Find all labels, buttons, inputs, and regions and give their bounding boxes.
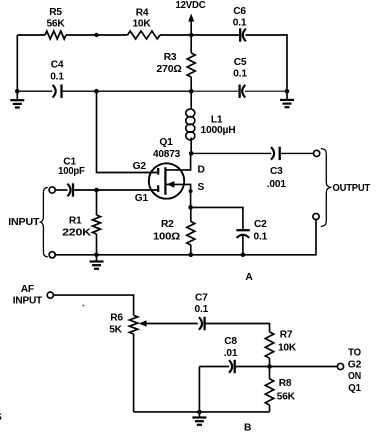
capacitor C5 (233, 57, 247, 98)
svg-text:220K: 220K (62, 227, 92, 238)
wire top rail left segment (17, 34, 45, 36)
wire top rail R5 to R4 (66, 34, 128, 36)
12VDC supply arrow (176, 0, 207, 35)
svg-text:G2: G2 (133, 161, 147, 172)
junction dot right ground node (285, 89, 290, 94)
wire ground vertical to C8 (199, 366, 229, 368)
svg-text:R2: R2 (161, 219, 174, 230)
junction dot bias node at C4 rail (94, 89, 99, 94)
svg-text:OUTPUT: OUTPUT (333, 183, 371, 194)
svg-text:40873: 40873 (153, 149, 181, 160)
junction dot R2 bottom rail (189, 253, 194, 258)
resistor R7 (265, 330, 297, 367)
svg-text:R7: R7 (280, 330, 293, 341)
svg-text:AF: AF (21, 284, 34, 295)
wire C4 to bias column (62, 90, 97, 92)
svg-text:5K: 5K (109, 325, 122, 336)
AF input terminal (47, 292, 53, 298)
wire bias column to R3 column at y=91 (97, 90, 192, 92)
svg-text:INPUT: INPUT (8, 217, 40, 228)
svg-text:0.1: 0.1 (254, 232, 268, 243)
resistor R3 (156, 35, 195, 91)
capacitor C4 (50, 60, 64, 98)
capacitor C2 (236, 219, 267, 255)
svg-text:R6: R6 (110, 313, 123, 324)
junction dot 12VDC node (189, 33, 193, 37)
svg-text:R8: R8 (279, 378, 292, 389)
svg-text:.001: .001 (267, 179, 287, 190)
svg-text:270Ω: 270Ω (156, 64, 181, 75)
resistor R8 (265, 367, 295, 412)
svg-text:56K: 56K (277, 391, 296, 402)
capacitor C8 (224, 336, 238, 373)
junction dot R3 bottom node (189, 89, 194, 94)
svg-text:C2: C2 (254, 219, 267, 230)
wire C8 to R7/R8 node (235, 366, 269, 368)
wire C5 to right ground node (245, 90, 287, 92)
svg-text:S: S (0, 412, 2, 423)
resistor R5 (45, 7, 66, 39)
svg-text:G1: G1 (135, 193, 149, 204)
junction dot R5-R4 node (94, 33, 98, 37)
wire node to output terminal B (270, 366, 338, 368)
AF INPUT label (13, 284, 43, 306)
svg-text:0.1: 0.1 (233, 68, 247, 79)
svg-text:Q1: Q1 (348, 383, 361, 394)
svg-text:C3: C3 (270, 166, 283, 177)
resistor R2 (153, 207, 195, 254)
wire left vertical from top rail to C4 rail (16, 35, 18, 91)
svg-text:0.1: 0.1 (233, 17, 247, 28)
TO G2 ON Q1 label (348, 348, 362, 394)
svg-text:C7: C7 (195, 293, 208, 304)
svg-text:10K: 10K (278, 343, 297, 354)
svg-text:100pF: 100pF (58, 166, 85, 177)
svg-text:R3: R3 (164, 52, 177, 63)
svg-text:C5: C5 (234, 57, 247, 68)
wire bottom rail B (134, 411, 270, 413)
capacitor C3 (267, 147, 287, 190)
input brace (41, 187, 48, 257)
svg-text:0.1: 0.1 (50, 72, 64, 83)
resistor R4 (128, 8, 161, 40)
ground symbol left (10, 91, 24, 107)
resistor R1 (62, 190, 100, 255)
svg-text:C6: C6 (233, 6, 246, 17)
svg-text:INPUT: INPUT (13, 295, 43, 306)
svg-text:R5: R5 (49, 7, 62, 18)
wire C8 left plate to ground (198, 367, 200, 412)
svg-text:TO: TO (348, 348, 361, 359)
junction dot R1 top (94, 188, 99, 193)
transistor Q1 40673 dual-gate MOSFET (149, 137, 191, 207)
junction dot R7/R8 node (267, 364, 272, 369)
output top terminal (314, 150, 320, 156)
ground symbol B (192, 412, 206, 425)
svg-text:S: S (198, 182, 205, 193)
input bottom terminal (49, 252, 55, 258)
stray mark (83, 305, 85, 307)
wire C4 rail: ground to C4 (17, 90, 52, 92)
wire C1 to G1 (74, 189, 159, 191)
svg-text:D: D (198, 164, 205, 175)
svg-text:10K: 10K (132, 18, 151, 29)
svg-text:C8: C8 (224, 336, 237, 347)
svg-text:100Ω: 100Ω (153, 232, 180, 243)
svg-text:A: A (245, 272, 253, 283)
wire C3 to output top terminal (280, 152, 313, 154)
junction dot rail B ground (197, 410, 202, 415)
terminal to G2 (337, 363, 343, 369)
svg-text:R4: R4 (136, 8, 149, 19)
wire top rail C6 to right corner, down to right ground node (246, 35, 288, 91)
svg-text:1000µH: 1000µH (201, 125, 236, 136)
wire G2 feed from bias column (97, 91, 158, 172)
wire top rail R4 to 12VDC node (160, 34, 239, 36)
junction dot R1 ground node (94, 253, 99, 258)
junction dot source / R2-C2 node (188, 205, 193, 210)
svg-text:Q1: Q1 (159, 137, 173, 148)
junction dot C2 bottom rail (241, 253, 246, 258)
capacitor C7 (195, 293, 209, 331)
svg-text:G2: G2 (348, 359, 362, 370)
wire R3 node to C5 (191, 90, 238, 92)
output brace (321, 149, 332, 227)
wire output bottom terminal to bottom rail (55, 220, 316, 255)
ground symbol input side (90, 255, 104, 269)
svg-text:C4: C4 (51, 60, 64, 71)
svg-text:B: B (244, 422, 251, 433)
svg-text:R1: R1 (69, 216, 82, 227)
junction dot left ground node (15, 89, 20, 94)
capacitor C1 (58, 157, 85, 197)
ground symbol right (280, 91, 294, 107)
wire R6 bottom to rail B (133, 334, 135, 412)
wire AF input to R6 top (53, 295, 133, 315)
svg-text:0.1: 0.1 (195, 304, 209, 315)
junction dot source corner (189, 189, 193, 193)
inductor L1 (186, 93, 236, 152)
output bottom terminal (313, 213, 319, 219)
wire C7 to R7 top corner (205, 324, 269, 332)
junction dot drain node (189, 151, 194, 156)
capacitor C6 (233, 6, 247, 42)
R6 wiper arrow (139, 320, 198, 326)
potentiometer R6 (109, 313, 138, 336)
wire source node to C2 (191, 207, 243, 229)
wire input terminal to C1 (55, 189, 67, 191)
input top terminal (49, 187, 55, 193)
svg-text:.01: .01 (224, 348, 238, 359)
svg-text:ON: ON (348, 371, 361, 382)
wire drain node to C3 (191, 152, 271, 154)
svg-text:12VDC: 12VDC (176, 0, 207, 11)
svg-text:56K: 56K (46, 19, 65, 30)
